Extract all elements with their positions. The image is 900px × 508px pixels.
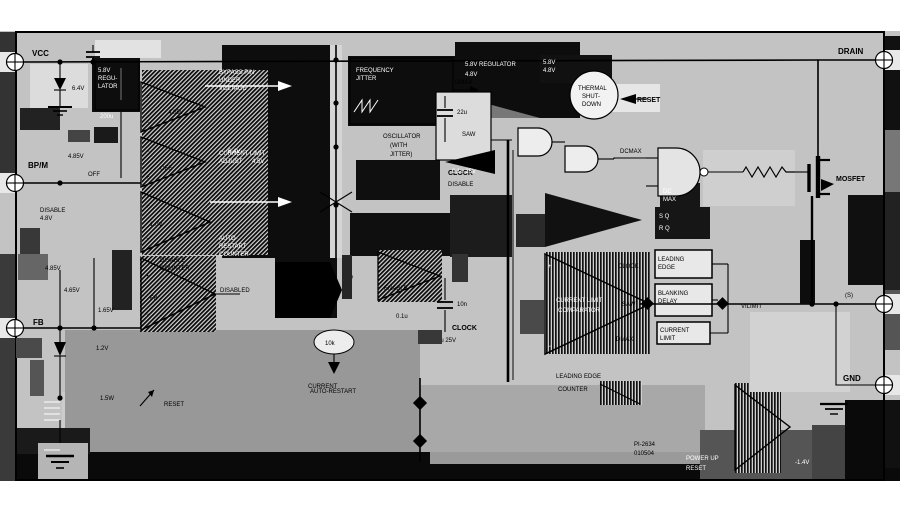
svg-text:RESET: RESET — [637, 97, 661, 104]
pin SOURCE — [876, 296, 893, 313]
pin VCC — [7, 49, 50, 71]
svg-text:5.8V REGULATOR: 5.8V REGULATOR — [465, 62, 516, 68]
transistor Q1 MOSFET — [795, 140, 866, 198]
svg-text:−: − — [146, 120, 150, 126]
svg-text:FB: FB — [150, 296, 158, 302]
svg-text:DOWN: DOWN — [582, 102, 601, 108]
wire vertical bus 508 — [452, 140, 513, 382]
wire osc out CLOCK — [445, 129, 479, 177]
svg-text:VOLTAGE: VOLTAGE — [219, 86, 246, 92]
svg-text:0.1u 25V: 0.1u 25V — [452, 169, 476, 175]
wire FB comparator out — [215, 288, 250, 294]
svg-text:CLOCK: CLOCK — [618, 264, 639, 270]
svg-text:GND: GND — [843, 374, 861, 383]
svg-text:+: + — [146, 274, 150, 280]
text regulator top — [465, 60, 555, 78]
ground G1 — [48, 107, 72, 115]
svg-text:(S): (S) — [845, 293, 853, 299]
svg-text:10n: 10n — [457, 302, 467, 308]
pin BPM — [7, 161, 49, 192]
comparator U8 feedback — [141, 258, 215, 330]
capacitor C1 — [86, 45, 100, 62]
box blanking2 — [655, 284, 712, 316]
black arrow block — [275, 262, 342, 318]
svg-text:DRAIN: DRAIN — [838, 47, 864, 56]
svg-text:+: + — [146, 175, 150, 181]
svg-text:1.65V: 1.65V — [98, 308, 114, 314]
oscillator U5 — [350, 58, 453, 158]
svg-text:4.8V: 4.8V — [40, 216, 52, 222]
box leading edge blanking — [655, 250, 712, 278]
svg-text:CLOCK: CLOCK — [452, 325, 477, 332]
wire FB — [16, 258, 141, 396]
svg-text:COUNTER: COUNTER — [558, 387, 588, 393]
svg-text:FB: FB — [33, 318, 44, 327]
wire comparator out B — [210, 197, 292, 207]
pin DRAIN — [838, 47, 893, 69]
svg-text:AUTO-RESTART: AUTO-RESTART — [310, 389, 356, 395]
svg-text:COUNTER: COUNTER — [219, 252, 249, 258]
text power up reset — [686, 456, 719, 472]
svg-text:JITTER: JITTER — [356, 76, 377, 82]
svg-text:BLANKING: BLANKING — [658, 291, 689, 297]
resistor R1 — [743, 167, 795, 177]
comparator U2 — [141, 82, 205, 132]
svg-text:6.4V: 6.4V — [72, 86, 84, 92]
comparator U3 — [141, 137, 205, 187]
wire gate drive — [614, 148, 743, 196]
svg-text:−: − — [146, 149, 150, 155]
wire reset arrow — [620, 94, 661, 104]
wire vertical bus 336 — [333, 45, 338, 258]
oval current limit — [308, 330, 354, 390]
wire VCC rail — [23, 57, 818, 64]
net bits center — [342, 255, 442, 344]
black arrow left — [445, 150, 495, 174]
latch box U7 — [659, 189, 676, 232]
gate G1 — [518, 128, 565, 156]
svg-text:FREQUENCY: FREQUENCY — [356, 68, 394, 74]
ground G2 — [38, 443, 88, 479]
text auto restart note — [219, 236, 249, 258]
svg-text:OFF: OFF — [88, 172, 100, 178]
svg-text:0.1u: 0.1u — [396, 314, 408, 320]
svg-text:+: + — [548, 264, 552, 270]
zener D1 — [54, 62, 84, 106]
svg-text:LEADING: LEADING — [658, 257, 685, 263]
svg-text:PI-2634: PI-2634 — [634, 442, 656, 448]
oscillator sub-box — [436, 92, 512, 160]
svg-text:THERMAL: THERMAL — [578, 86, 607, 92]
signal labels right comparator — [616, 264, 639, 343]
text bypass undervoltage — [219, 70, 264, 165]
svg-text:MOSFET: MOSFET — [836, 176, 866, 183]
svg-text:R Q: R Q — [659, 226, 670, 232]
svg-text:RESTART: RESTART — [219, 244, 247, 250]
svg-text:5.8V: 5.8V — [543, 60, 555, 66]
svg-text:S Q: S Q — [659, 214, 670, 220]
svg-text:CURRENT: CURRENT — [660, 328, 690, 334]
comparator U9 — [378, 252, 440, 300]
text figure id — [634, 442, 656, 457]
svg-text:EDGE: EDGE — [658, 265, 675, 271]
svg-text:DISABLED: DISABLED — [220, 288, 250, 294]
svg-text:DMAX: DMAX — [455, 80, 472, 86]
svg-text:4.8V: 4.8V — [465, 72, 477, 78]
svg-text:COMPARATOR: COMPARATOR — [558, 308, 601, 314]
svg-text:RESET: RESET — [686, 466, 706, 472]
wire osc out SAW — [441, 151, 478, 160]
svg-text:DMAX: DMAX — [616, 337, 633, 343]
svg-text:BYPASS PIN: BYPASS PIN — [219, 70, 254, 76]
svg-text:POWER UP: POWER UP — [686, 456, 719, 462]
svg-text:VILIMIT: VILIMIT — [741, 304, 762, 310]
svg-text:DISABLE: DISABLE — [448, 182, 473, 188]
svg-text:−: − — [146, 236, 150, 242]
svg-text:(WITH: (WITH — [390, 143, 407, 149]
pin GND — [843, 374, 893, 394]
box state machine — [657, 322, 710, 344]
svg-text:MAX: MAX — [663, 197, 676, 203]
svg-text:1.0V: 1.0V — [150, 222, 162, 228]
diode D2 — [54, 328, 66, 401]
svg-text:AUTO-: AUTO- — [219, 236, 238, 242]
svg-text:DC: DC — [663, 189, 672, 195]
svg-text:4.65V: 4.65V — [64, 288, 80, 294]
svg-text:BP/M: BP/M — [28, 161, 48, 170]
svg-text:LIMIT: LIMIT — [660, 336, 676, 342]
wire gnd drop — [836, 304, 875, 385]
text current limit adjust — [219, 151, 266, 165]
svg-text:−: − — [548, 344, 552, 350]
svg-text:JITTER): JITTER) — [390, 152, 412, 158]
svg-text:ENABLE: ENABLE — [384, 286, 408, 292]
node diamonds — [641, 297, 729, 310]
svg-text:200u: 200u — [100, 114, 113, 120]
svg-text:-1.4V: -1.4V — [795, 460, 809, 466]
comparator U10 current limit — [545, 254, 650, 380]
svg-text:UNDER-: UNDER- — [219, 78, 242, 84]
wire osc out DMAX — [453, 80, 479, 94]
svg-text:010504: 010504 — [634, 451, 655, 457]
wire crossing X — [320, 192, 352, 212]
gate G2 — [565, 146, 614, 172]
svg-text:4.85V: 4.85V — [168, 110, 184, 116]
svg-text:REGU-: REGU- — [98, 76, 117, 82]
svg-text:+: + — [146, 94, 150, 100]
capacitor C2 — [437, 96, 476, 175]
wire mosfet source — [800, 196, 815, 307]
svg-text:OSCILLATOR: OSCILLATOR — [383, 134, 421, 140]
svg-text:LEADING EDGE: LEADING EDGE — [556, 374, 601, 380]
text auto restart counter band — [100, 381, 642, 408]
svg-text:10k: 10k — [325, 341, 336, 347]
svg-text:22u: 22u — [457, 110, 467, 116]
capacitor C3 — [432, 278, 467, 344]
svg-text:1.2V: 1.2V — [96, 346, 108, 352]
comparator U11 autorestart — [735, 385, 809, 470]
resistor R2 — [44, 402, 60, 450]
svg-text:VCC: VCC — [32, 49, 49, 58]
pin FB — [7, 318, 44, 337]
svg-text:ADJUST: ADJUST — [219, 159, 243, 165]
svg-text:+: + — [146, 204, 150, 210]
svg-text:SAW: SAW — [462, 132, 476, 138]
svg-text:SHUT-: SHUT- — [582, 94, 600, 100]
svg-text:CURRENT LIMIT: CURRENT LIMIT — [556, 298, 603, 304]
wire vertical 420 — [413, 378, 427, 462]
wire source rail — [640, 293, 875, 310]
svg-text:DISABLE: DISABLE — [160, 258, 185, 264]
svg-text:4.8V: 4.8V — [543, 68, 555, 74]
svg-text:CURRENT LIMIT: CURRENT LIMIT — [219, 151, 266, 157]
thermal shutdown U6 — [570, 71, 618, 119]
svg-text:−: − — [146, 312, 150, 318]
svg-text:COUNTER: COUNTER — [160, 266, 190, 272]
comparator U4 — [141, 192, 210, 252]
wire box bus — [520, 264, 728, 334]
svg-text:SAW: SAW — [622, 302, 636, 308]
svg-text:DISABLE: DISABLE — [40, 208, 65, 214]
svg-text:DCMAX: DCMAX — [620, 149, 642, 155]
ground G3 — [820, 404, 848, 414]
wire drain drop — [818, 60, 875, 140]
svg-text:4.5V: 4.5V — [252, 159, 264, 165]
wire comparator out A — [205, 81, 292, 91]
svg-text:4.85V: 4.85V — [45, 266, 61, 272]
wire BPM — [20, 112, 141, 254]
svg-text:RESET: RESET — [164, 402, 184, 408]
regulator block U1 — [95, 62, 139, 120]
svg-text:4.85V: 4.85V — [68, 154, 84, 160]
svg-text:1.5W: 1.5W — [100, 396, 114, 402]
svg-text:LATOR: LATOR — [98, 84, 118, 90]
svg-text:5.8V: 5.8V — [98, 68, 110, 74]
svg-text:OFF: OFF — [160, 166, 172, 172]
